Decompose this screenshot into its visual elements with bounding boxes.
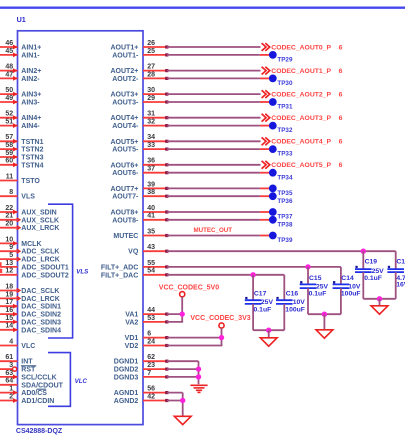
pin 30 AOUT3+ (right) <box>110 87 168 99</box>
wire AGND2 <box>167 400 183 402</box>
svg-text:FILT+_DAC: FILT+_DAC <box>101 272 138 279</box>
svg-text:55: 55 <box>147 260 155 267</box>
svg-text:15: 15 <box>5 315 13 322</box>
pin 48 AIN2+ (left) <box>0 64 41 76</box>
svg-text:47: 47 <box>5 71 13 78</box>
svg-text:TP39: TP39 <box>277 237 293 244</box>
svg-text:5: 5 <box>9 252 13 259</box>
pin 36 AOUT6+ (right) <box>110 158 168 170</box>
svg-text:20: 20 <box>5 221 13 228</box>
svg-text:TP36: TP36 <box>277 198 293 205</box>
svg-text:18: 18 <box>5 283 13 290</box>
VLS power group bracket <box>48 204 73 338</box>
svg-text:42: 42 <box>147 393 155 400</box>
wire AOUT net to TP37 <box>167 211 260 213</box>
svg-text:INT: INT <box>21 359 33 366</box>
pin 14 DAC_SDIN4 (left) <box>0 323 61 335</box>
svg-text:FILT+_ADC: FILT+_ADC <box>101 264 138 271</box>
off-page connector CODEC_AOUT1_P <box>262 67 343 75</box>
wire AGND1 <box>167 392 183 394</box>
svg-text:35: 35 <box>147 228 155 235</box>
pin 64 SDA/CDOUT (left) <box>0 378 64 390</box>
svg-text:8: 8 <box>9 189 13 196</box>
junction C19/C18 ground rail <box>377 296 382 301</box>
svg-text:CODEC_AOUT3_P: CODEC_AOUT3_P <box>271 115 331 122</box>
svg-text:DAC_LRCK: DAC_LRCK <box>21 296 60 303</box>
svg-text:DGND2: DGND2 <box>114 367 139 374</box>
wire AOUT net to TP33 <box>167 148 260 150</box>
svg-text:C14: C14 <box>341 275 354 282</box>
svg-text:DGND3: DGND3 <box>114 374 139 381</box>
svg-text:10V: 10V <box>293 299 306 306</box>
pin 31 AOUT4+ (right) <box>110 111 168 123</box>
wire C19/C18 ground rail <box>363 298 395 300</box>
wire AOUT net to TP34 <box>167 172 260 174</box>
junction VA1/VCC_CODEC_5V0 <box>180 311 185 316</box>
svg-text:VLS: VLS <box>76 268 89 275</box>
wire CODEC_AOUT2_P <box>167 93 261 95</box>
svg-text:0.1uF: 0.1uF <box>309 291 327 298</box>
off-page connector CODEC_AOUT2_P <box>262 90 343 98</box>
svg-text:TSTN4: TSTN4 <box>21 162 43 169</box>
pin 8 VLS (left) <box>0 189 35 201</box>
wire CODEC_AOUT0_P <box>167 46 261 48</box>
junction C15/C14 ground rail <box>322 312 327 317</box>
wire AOUT net to TP35 <box>167 187 260 189</box>
pin 3 RST (left) <box>0 362 36 374</box>
junction DGND3 <box>196 374 201 379</box>
junction VD1/VCC_CODEC_3V3 <box>219 335 224 340</box>
pin 45 AIN1- (left) <box>0 48 40 60</box>
wire C17/C16 ground rail <box>253 329 284 331</box>
wire AGND vertical <box>182 393 184 417</box>
pin 35 MUTEC (right) <box>113 228 168 240</box>
svg-text:C16: C16 <box>286 291 299 298</box>
capacitor C14 <box>333 267 361 314</box>
test point TP35 <box>260 185 293 198</box>
power symbol VCC_CODEC_3V3 <box>190 315 250 345</box>
pin 33 AOUT5- (right) <box>112 142 168 154</box>
svg-text:TSTN3: TSTN3 <box>21 155 43 162</box>
wire AOUT net to TP36 <box>167 195 260 197</box>
svg-text:AIN2-: AIN2- <box>21 76 40 83</box>
svg-text:17: 17 <box>5 299 13 306</box>
svg-text:39: 39 <box>147 181 155 188</box>
svg-text:9: 9 <box>9 244 13 251</box>
pin 24 VD2 (right) <box>125 338 169 350</box>
svg-text:33: 33 <box>147 142 155 149</box>
pin 23 DGND2 (right) <box>114 362 169 374</box>
svg-text:DAC_SCLK: DAC_SCLK <box>21 288 59 295</box>
junction on VQ rail at C19 <box>361 249 366 254</box>
pin 44 VA1 (right) <box>125 307 168 319</box>
ground (earth) for DGND <box>190 385 207 392</box>
svg-text:TP33: TP33 <box>277 151 293 158</box>
svg-text:26: 26 <box>147 40 155 47</box>
svg-text:30: 30 <box>147 87 155 94</box>
svg-text:AOUT1+: AOUT1+ <box>110 45 138 52</box>
junction C17/C16 ground rail <box>266 328 271 333</box>
test point TP36 <box>260 192 293 205</box>
svg-text:VCC_CODEC_5V0: VCC_CODEC_5V0 <box>159 284 219 291</box>
svg-text:6: 6 <box>339 115 343 122</box>
svg-text:12: 12 <box>5 268 13 275</box>
svg-text:22: 22 <box>5 205 13 212</box>
sheet border top line <box>0 7 405 9</box>
test point TP30 <box>260 75 293 88</box>
RST active-low overbar <box>21 365 36 367</box>
pin 32 AOUT4- (right) <box>112 119 168 131</box>
svg-text:6: 6 <box>339 139 343 146</box>
pin 7 DGND3 (right) <box>114 370 169 382</box>
svg-text:6: 6 <box>147 331 151 338</box>
svg-text:DGND1: DGND1 <box>114 359 139 366</box>
test point TP39 <box>260 232 293 245</box>
svg-text:AD0/CS: AD0/CS <box>21 390 47 397</box>
svg-text:16V: 16V <box>396 281 405 288</box>
svg-text:ADC_SCLK: ADC_SCLK <box>21 249 59 256</box>
svg-text:53: 53 <box>147 315 155 322</box>
svg-text:TP34: TP34 <box>277 174 293 181</box>
pin 55 FILT+_ADC (right) <box>101 260 169 272</box>
svg-text:50: 50 <box>5 87 13 94</box>
svg-text:TP37: TP37 <box>277 214 293 221</box>
test point TP33 <box>260 145 293 157</box>
svg-text:AUX_LRCK: AUX_LRCK <box>21 225 59 232</box>
wire VD2 <box>167 345 223 347</box>
svg-text:25V: 25V <box>261 299 274 306</box>
svg-text:TSTN2: TSTN2 <box>21 147 43 154</box>
svg-text:38: 38 <box>147 189 155 196</box>
svg-text:100uF: 100uF <box>341 291 361 298</box>
off-page connector CODEC_AOUT4_P <box>262 137 343 145</box>
svg-text:RST: RST <box>21 367 36 374</box>
pin 10 MCLK (left) <box>0 236 42 248</box>
wire DGND1 <box>167 360 199 362</box>
pin 43 VQ (right) <box>128 244 168 256</box>
svg-text:25: 25 <box>147 48 155 55</box>
svg-text:AD1/CDIN: AD1/CDIN <box>21 398 54 405</box>
pin 11 TSTO (left) <box>0 173 40 185</box>
svg-text:37: 37 <box>147 166 155 173</box>
pin 59 TSTN3 (left) <box>0 150 44 162</box>
svg-text:CODEC_AOUT4_P: CODEC_AOUT4_P <box>271 139 331 146</box>
svg-text:CS42888-DQZ: CS42888-DQZ <box>16 428 63 435</box>
svg-text:CODEC_AOUT5_P: CODEC_AOUT5_P <box>271 162 331 169</box>
svg-text:51: 51 <box>5 119 13 126</box>
svg-text:AOUT5+: AOUT5+ <box>110 139 138 146</box>
wire AOUT net to TP29 <box>167 54 260 56</box>
pin 29 AOUT3- (right) <box>112 95 168 107</box>
svg-text:DAC_SDIN2: DAC_SDIN2 <box>21 312 61 319</box>
wire DGND2 <box>167 368 199 370</box>
pin 50 AIN3+ (left) <box>0 87 41 99</box>
svg-text:14: 14 <box>5 323 13 330</box>
svg-text:VLC: VLC <box>75 378 88 385</box>
svg-text:ADC_SDOUT1: ADC_SDOUT1 <box>21 264 69 271</box>
svg-text:DAC_SDIN1: DAC_SDIN1 <box>21 304 61 311</box>
svg-text:36: 36 <box>147 158 155 165</box>
svg-text:AOUT7-: AOUT7- <box>112 194 139 201</box>
pin 15 DAC_SDIN3 (left) <box>0 315 61 327</box>
junction DGND2 <box>196 366 201 371</box>
clipped net label fragment (ADC_SDOUT2 wire, left edge) <box>0 269 2 273</box>
svg-text:AIN3+: AIN3+ <box>21 92 41 99</box>
pin 62 DGND1 (right) <box>114 354 169 366</box>
pin 27 AOUT2+ (right) <box>110 64 168 76</box>
wire VA2 <box>167 321 183 323</box>
svg-text:59: 59 <box>5 150 13 157</box>
svg-text:ADC_SDOUT2: ADC_SDOUT2 <box>21 272 69 279</box>
pin 49 AIN3- (left) <box>0 95 40 107</box>
svg-text:AOUT5-: AOUT5- <box>112 147 139 154</box>
svg-text:3: 3 <box>9 362 13 369</box>
pin 18 DAC_SCLK (left) <box>0 283 59 295</box>
pin 19 DAC_LRCK (left) <box>0 291 60 303</box>
off-page connector CODEC_AOUT5_P <box>262 161 343 169</box>
test point TP34 <box>260 169 293 182</box>
capacitor C17 <box>245 275 274 330</box>
svg-text:6: 6 <box>339 44 343 51</box>
svg-text:AIN4+: AIN4+ <box>21 115 41 122</box>
svg-text:57: 57 <box>5 134 13 141</box>
op-amp/IC U1 body (CS42888-DQZ codec) <box>18 31 144 425</box>
svg-text:62: 62 <box>147 354 155 361</box>
svg-text:AOUT1-: AOUT1- <box>112 52 139 59</box>
wire MUTEC_OUT net <box>167 235 260 237</box>
pin 38 AOUT7- (right) <box>112 189 168 201</box>
svg-text:AOUT8+: AOUT8+ <box>110 210 138 217</box>
svg-text:44: 44 <box>147 307 155 314</box>
svg-text:29: 29 <box>147 95 155 102</box>
wire AOUT net to TP32 <box>167 125 260 127</box>
svg-text:TP30: TP30 <box>277 80 293 87</box>
VLC power group bracket <box>48 353 70 407</box>
svg-text:MCLK: MCLK <box>21 241 41 248</box>
pin 37 AOUT6- (right) <box>112 166 168 178</box>
svg-text:6: 6 <box>339 91 343 98</box>
svg-text:VA1: VA1 <box>125 312 138 319</box>
pin 63 SCL/CCLK (left) <box>0 370 57 382</box>
pin 61 INT (left) <box>0 354 33 366</box>
test point TP31 <box>260 98 293 111</box>
svg-text:60: 60 <box>5 158 13 165</box>
pin 46 AIN1+ (left) <box>0 40 41 52</box>
svg-text:TP29: TP29 <box>277 57 293 64</box>
capacitor C15 <box>300 267 329 314</box>
wire VQ rail to C19/C18 <box>167 250 396 252</box>
svg-text:MUTEC: MUTEC <box>113 233 138 240</box>
svg-text:25V: 25V <box>316 283 329 290</box>
svg-text:0.1uF: 0.1uF <box>364 275 382 282</box>
capacitor C16 <box>276 275 305 330</box>
wire FILT+_ADC rail to C15/C14 <box>167 266 341 268</box>
svg-text:58: 58 <box>5 142 13 149</box>
svg-text:1: 1 <box>9 386 13 393</box>
svg-text:VLC: VLC <box>21 343 35 350</box>
svg-text:13: 13 <box>5 260 13 267</box>
wire stem to C17/C16 ground <box>268 330 270 338</box>
svg-text:AOUT3-: AOUT3- <box>112 100 139 107</box>
pin 53 VA2 (right) <box>125 315 168 327</box>
svg-text:DAC_SDIN3: DAC_SDIN3 <box>21 319 61 326</box>
svg-text:10V: 10V <box>348 283 361 290</box>
junction AGND2 <box>180 398 185 403</box>
svg-text:VQ: VQ <box>128 249 139 256</box>
svg-text:45: 45 <box>5 48 13 55</box>
pin 40 AOUT8+ (right) <box>110 205 168 217</box>
junction on FILT+_ADC rail at C15 <box>305 264 310 269</box>
svg-text:28: 28 <box>147 71 155 78</box>
wire AOUT net to TP30 <box>167 77 260 79</box>
svg-text:MUTEC_OUT: MUTEC_OUT <box>194 227 233 234</box>
svg-text:C18: C18 <box>396 259 405 266</box>
wire FILT+_DAC rail to C17/C16 <box>167 274 284 276</box>
wire DGND3 <box>167 376 199 378</box>
pin 17 DAC_SDIN1 (left) <box>0 299 61 311</box>
pin 22 AUX_SDIN (left) <box>0 205 57 217</box>
test point TP29 <box>260 51 293 64</box>
svg-text:CODEC_AOUT0_P: CODEC_AOUT0_P <box>271 44 331 51</box>
pin 39 AOUT7+ (right) <box>110 181 168 193</box>
svg-text:VD1: VD1 <box>125 335 139 342</box>
svg-text:C17: C17 <box>254 291 267 298</box>
svg-text:SCL/CCLK: SCL/CCLK <box>21 374 56 381</box>
ground (triangle) for AGND <box>174 416 191 424</box>
pin 41 AOUT8- (right) <box>112 213 168 225</box>
svg-text:AUX_SCLK: AUX_SCLK <box>21 217 59 224</box>
svg-text:ADC_LRCK: ADC_LRCK <box>21 257 60 264</box>
wire C15/C14 ground rail <box>308 313 341 315</box>
svg-text:52: 52 <box>5 111 13 118</box>
pin 9 ADC_SCLK (left) <box>0 244 59 256</box>
svg-text:41: 41 <box>147 213 155 220</box>
svg-text:16: 16 <box>5 307 13 314</box>
svg-text:AOUT6-: AOUT6- <box>112 170 139 177</box>
svg-text:AIN1-: AIN1- <box>21 52 40 59</box>
svg-text:AOUT2+: AOUT2+ <box>110 68 138 75</box>
pin 26 AOUT1+ (right) <box>110 40 168 52</box>
svg-text:6: 6 <box>339 68 343 75</box>
pin 13 ADC_SDOUT1 (left) <box>0 260 69 272</box>
svg-text:24: 24 <box>147 338 155 345</box>
svg-text:19: 19 <box>5 291 13 298</box>
svg-text:AIN4-: AIN4- <box>21 123 40 130</box>
svg-text:TP35: TP35 <box>277 190 293 197</box>
wire CODEC_AOUT4_P <box>167 140 261 142</box>
ground (triangle) for C17/C16 <box>260 338 277 346</box>
pin 52 AIN4+ (left) <box>0 111 41 123</box>
svg-text:TSTN1: TSTN1 <box>21 139 43 146</box>
pin 5 ADC_LRCK (left) <box>0 252 60 264</box>
svg-text:AIN1+: AIN1+ <box>21 45 41 52</box>
pin 34 AOUT5+ (right) <box>110 134 168 146</box>
svg-text:AOUT4-: AOUT4- <box>112 123 139 130</box>
svg-text:AOUT4+: AOUT4+ <box>110 115 138 122</box>
svg-text:DAC_SDIN4: DAC_SDIN4 <box>21 327 61 334</box>
svg-text:U1: U1 <box>17 15 26 24</box>
pin 47 AIN2- (left) <box>0 71 40 83</box>
wire CODEC_AOUT1_P <box>167 70 261 72</box>
pin 54 FILT+_DAC (right) <box>101 268 169 280</box>
pin 58 TSTN2 (left) <box>0 142 44 154</box>
test point TP37 <box>260 208 293 221</box>
svg-text:49: 49 <box>5 95 13 102</box>
svg-text:CODEC_AOUT1_P: CODEC_AOUT1_P <box>271 68 331 75</box>
wire DGND vertical <box>198 361 200 384</box>
pin 57 TSTN1 (left) <box>0 134 44 146</box>
wire VD1 <box>167 337 223 339</box>
pin 51 AIN4- (left) <box>0 119 40 131</box>
svg-text:TSTO: TSTO <box>21 178 40 185</box>
svg-text:64: 64 <box>5 378 13 385</box>
capacitor C19 <box>355 251 384 299</box>
svg-text:AOUT8-: AOUT8- <box>112 217 139 224</box>
svg-text:SDA/CDOUT: SDA/CDOUT <box>21 382 63 389</box>
svg-text:VD2: VD2 <box>125 343 139 350</box>
svg-text:31: 31 <box>147 111 155 118</box>
off-page connector CODEC_AOUT0_P <box>262 43 343 51</box>
pin 12 ADC_SDOUT2 (left) <box>0 268 69 280</box>
svg-text:32: 32 <box>147 119 155 126</box>
power symbol VCC_CODEC_5V0 <box>159 284 219 322</box>
pin 1 AD0/CS (left) <box>0 386 47 398</box>
wire VA1 <box>167 313 183 315</box>
svg-text:46: 46 <box>5 40 13 47</box>
svg-text:6: 6 <box>339 162 343 169</box>
svg-text:54: 54 <box>147 268 155 275</box>
svg-text:61: 61 <box>5 354 13 361</box>
pin 56 AGND1 (right) <box>114 386 169 398</box>
capacitor C18 <box>387 251 405 299</box>
wire stem to C15/C14 ground <box>323 314 325 330</box>
svg-text:C19: C19 <box>365 259 378 266</box>
junction on FILT+_DAC rail at C17 <box>250 272 255 277</box>
svg-text:4: 4 <box>9 338 13 345</box>
test point TP32 <box>260 122 293 135</box>
wire stem to C19/C18 ground <box>379 299 381 306</box>
svg-text:TP38: TP38 <box>277 221 293 228</box>
svg-text:7: 7 <box>147 370 151 377</box>
svg-text:AIN2+: AIN2+ <box>21 68 41 75</box>
svg-text:40: 40 <box>147 205 155 212</box>
svg-text:0.1uF: 0.1uF <box>254 307 272 314</box>
ground (triangle) for C15/C14 <box>316 330 333 338</box>
svg-text:56: 56 <box>147 386 155 393</box>
off-page connector CODEC_AOUT3_P <box>262 114 343 122</box>
wire AOUT net to TP31 <box>167 101 260 103</box>
pin 28 AOUT2- (right) <box>112 71 168 83</box>
svg-text:100uF: 100uF <box>285 307 305 314</box>
svg-text:2: 2 <box>9 393 13 400</box>
pin 21 AUX_SCLK (left) <box>0 213 59 225</box>
svg-text:TP31: TP31 <box>277 104 293 111</box>
svg-text:AIN3-: AIN3- <box>21 100 40 107</box>
clipped net label fragment (ADC_SDOUT1 wire, left edge) <box>0 262 2 266</box>
svg-text:AOUT2-: AOUT2- <box>112 76 139 83</box>
pin 6 VD1 (right) <box>125 331 169 343</box>
test point TP38 <box>260 216 293 228</box>
svg-text:34: 34 <box>147 134 155 141</box>
pin 16 DAC_SDIN2 (left) <box>0 307 61 319</box>
svg-text:10: 10 <box>5 236 13 243</box>
svg-text:27: 27 <box>147 64 155 71</box>
svg-text:11: 11 <box>6 173 14 180</box>
svg-text:AOUT3+: AOUT3+ <box>110 92 138 99</box>
svg-text:VLS: VLS <box>21 194 35 201</box>
pin 2 AD1/CDIN (left) <box>0 393 54 405</box>
svg-text:23: 23 <box>147 362 155 369</box>
